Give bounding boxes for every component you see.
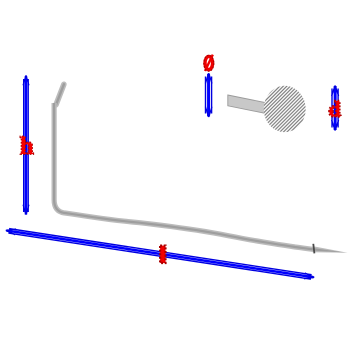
svg-text:h: h bbox=[20, 133, 34, 160]
svg-text:d: d bbox=[328, 97, 340, 122]
